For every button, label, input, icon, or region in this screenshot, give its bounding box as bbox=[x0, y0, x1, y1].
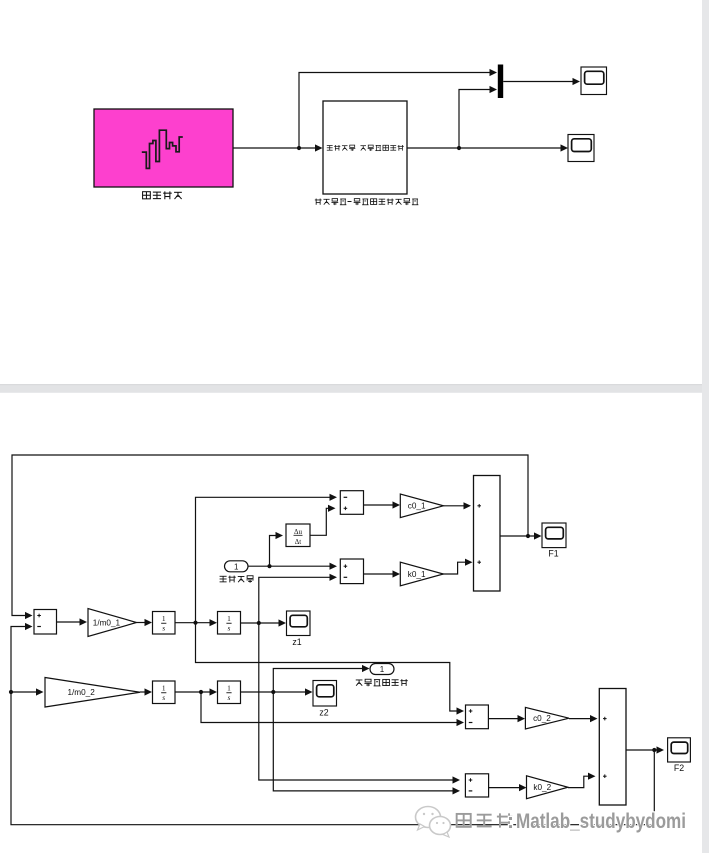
svg-text:Δt: Δt bbox=[295, 538, 302, 546]
wire: gain c0_1 to big sum1 bbox=[443, 502, 471, 509]
derivative block bbox=[286, 524, 310, 547]
svg-text:s: s bbox=[228, 693, 231, 702]
bottom white card bbox=[0, 393, 702, 853]
source block 路面输入 (road input) bbox=[94, 109, 233, 187]
right gray strip bbox=[702, 0, 709, 853]
sum block k0_1 bbox=[340, 559, 363, 584]
svg-text:1/m0_2: 1/m0_2 bbox=[67, 688, 95, 697]
wire: gain c0_2 to big sum2 bbox=[569, 715, 598, 722]
gain c0_2 bbox=[525, 707, 569, 729]
wire: subsystem output to scope2 bbox=[407, 144, 568, 151]
label 地面输入 bbox=[220, 576, 254, 583]
scope F2 bbox=[668, 738, 691, 773]
wire: sum to gain k0_1 bbox=[364, 570, 401, 577]
wire: I2 to scope z1 bbox=[241, 619, 287, 626]
scope1 bbox=[581, 67, 607, 95]
svg-text:1: 1 bbox=[380, 665, 385, 674]
big sum2 bbox=[599, 689, 626, 806]
inport 地面输入 bbox=[225, 561, 249, 572]
svg-text:Matlab_studybydomi: Matlab_studybydomi bbox=[516, 810, 686, 833]
node: v2 junction bbox=[199, 690, 203, 694]
wire: I4 to scope z2 bbox=[241, 688, 313, 695]
node: output branch junction bbox=[457, 146, 461, 150]
wire: S1 to gain 1/m0_1 bbox=[57, 618, 88, 625]
outport 车身振动输出 bbox=[370, 664, 394, 675]
scope z2 bbox=[313, 681, 337, 718]
wire: sum to gain c0_1 bbox=[364, 501, 401, 508]
scope F1 bbox=[542, 523, 566, 559]
wire: v1 up to sum c0_1 minus input bbox=[196, 494, 338, 623]
wire: F1 feedback top line bbox=[12, 455, 528, 619]
wire: v2 down to sum c0_2 minus input bbox=[201, 692, 464, 726]
gain 1/m0_2 bbox=[45, 678, 140, 708]
svg-text:F2: F2 bbox=[674, 763, 684, 773]
wire: I3 to I4 with v2 junction bbox=[175, 688, 217, 695]
svg-text:1: 1 bbox=[162, 614, 166, 623]
mux bbox=[498, 65, 503, 99]
wire: I1 to I2 with v1 junction bbox=[175, 619, 217, 626]
svg-text:Δu: Δu bbox=[294, 528, 303, 536]
svg-text:s: s bbox=[228, 624, 231, 633]
svg-text:1: 1 bbox=[162, 683, 166, 692]
sum block k0_2 bbox=[465, 774, 488, 797]
gain k0_1 bbox=[400, 562, 443, 586]
subsystem port label 地面输入 bbox=[327, 145, 356, 151]
wire: mux output to scope1 bbox=[503, 78, 580, 85]
integrator I3 bbox=[153, 681, 176, 704]
node: branch junction on input wire bbox=[297, 146, 301, 150]
wire: sum to gain c0_2 bbox=[488, 715, 525, 722]
subsystem block 一系悬挂-四分之一车体模型 bbox=[323, 101, 407, 194]
node: z2 junction bbox=[271, 690, 275, 694]
wire: input feedthrough up to mux input 1 bbox=[299, 69, 497, 148]
wire: sum to gain k0_2 bbox=[489, 784, 527, 791]
wire: gain k0_2 jog to big sum2 bbox=[568, 773, 596, 788]
node: v1 junction bbox=[193, 621, 197, 625]
wire: z1 up to sum k0_1 minus input bbox=[259, 574, 337, 623]
subsystem port label 车身振动输出 bbox=[360, 145, 403, 151]
svg-text:z1: z1 bbox=[292, 637, 301, 647]
scope z1 bbox=[287, 611, 311, 647]
wire: derivative to sum c0_1 plus input bbox=[310, 505, 336, 536]
gain 1/m0_1 bbox=[88, 609, 137, 637]
svg-text:k0_1: k0_1 bbox=[408, 570, 426, 579]
wire: gain k0_1 jog to big sum1 bbox=[442, 559, 473, 574]
svg-text:z2: z2 bbox=[319, 708, 328, 718]
wire: inport to sum k0_1 plus input bbox=[248, 563, 337, 570]
wire: feedback to gain 1/m0_2 bbox=[11, 688, 44, 695]
watermark text 微信号: Matlab_studybydomi bbox=[457, 810, 686, 833]
svg-text:c0_1: c0_1 bbox=[408, 502, 426, 511]
wire: z1 down to sum k0_2 plus input bbox=[259, 623, 460, 784]
integrator I4 bbox=[218, 681, 241, 704]
integrator I2 bbox=[218, 612, 241, 635]
node: F1 junction bbox=[526, 534, 530, 538]
scope2 bbox=[568, 135, 594, 162]
wire: F2 feedback bottom line bbox=[11, 623, 654, 825]
svg-text:1/m0_1: 1/m0_1 bbox=[93, 618, 121, 627]
gain c0_1 bbox=[400, 494, 443, 518]
node: z1 junction bbox=[257, 621, 261, 625]
svg-text:F1: F1 bbox=[548, 549, 558, 559]
wire: up to derivative bbox=[270, 532, 284, 566]
watermark logo bbox=[416, 807, 451, 838]
wire: z2 down to sum k0_2 minus input bbox=[273, 692, 460, 795]
sum block c0_2 bbox=[466, 705, 489, 729]
wire: gain to integrator I3 bbox=[140, 688, 152, 695]
label 一系悬挂-四分之一车体模型 bbox=[315, 199, 419, 206]
svg-text:c0_2: c0_2 bbox=[533, 714, 551, 723]
gain k0_2 bbox=[527, 776, 569, 799]
integrator I1 bbox=[153, 612, 176, 635]
wire: v1 down to sum c0_2 plus input bbox=[196, 623, 465, 715]
wire: big sum1 output to F1 scope bbox=[500, 532, 542, 539]
node: F2 junction on feedback for 1/m0_2 bbox=[9, 690, 13, 694]
svg-text::: : bbox=[507, 810, 514, 833]
separator band bbox=[0, 385, 709, 393]
sum block c0_1 bbox=[340, 491, 363, 515]
label 车身振动输出 bbox=[356, 679, 408, 686]
svg-text:1: 1 bbox=[227, 614, 231, 623]
top white card bbox=[0, 0, 702, 385]
svg-text:k0_2: k0_2 bbox=[533, 783, 551, 792]
label 路面输入 bbox=[143, 191, 182, 199]
wire: z2 up to outport bbox=[273, 665, 369, 692]
svg-text:s: s bbox=[162, 693, 165, 702]
node: inport junction bbox=[267, 564, 271, 568]
big sum1 bbox=[474, 476, 501, 592]
svg-text:1: 1 bbox=[227, 683, 231, 692]
sum block S1 bbox=[34, 610, 57, 635]
node: F2 output junction bbox=[652, 748, 656, 752]
wire: branch up to mux input 2 bbox=[459, 86, 497, 148]
wire: big sum2 output to F2 scope bbox=[626, 746, 664, 753]
wire: source to subsystem bbox=[233, 144, 323, 151]
svg-text:1: 1 bbox=[234, 562, 239, 571]
wire: gain to integrator I1 bbox=[137, 619, 153, 626]
svg-text:s: s bbox=[162, 624, 165, 633]
